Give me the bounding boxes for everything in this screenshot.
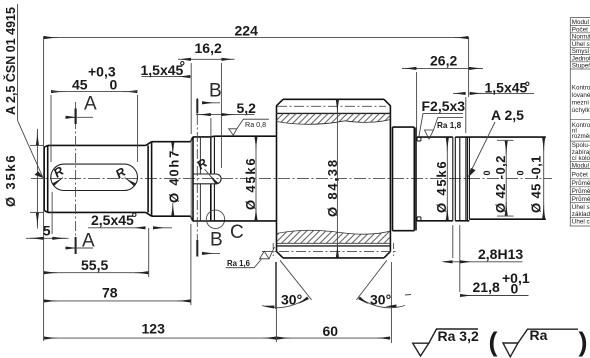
hub step section Ø52 bbox=[393, 127, 417, 231]
gear pitch line bottom (dash-dot) bbox=[262, 251, 396, 253]
dim 60 bbox=[276, 337, 390, 339]
svg-text:0: 0 bbox=[516, 170, 526, 175]
dim 45 +0,3 keyway length bbox=[51, 91, 65, 93]
svg-text:A: A bbox=[84, 94, 97, 115]
svg-text:): ) bbox=[579, 327, 588, 357]
svg-text:Jednot: Jednot bbox=[572, 55, 590, 62]
neck section with keyway runout bbox=[193, 136, 215, 221]
ext line left common bbox=[43, 36, 45, 341]
svg-text:Ra 3,2: Ra 3,2 bbox=[438, 328, 479, 344]
svg-text:Ø 45k6: Ø 45k6 bbox=[434, 160, 449, 213]
svg-text:mezní: mezní bbox=[572, 100, 589, 107]
step chamfer 2,5x45 between Ø35 and Ø40 bbox=[146, 142, 152, 217]
shaft section 3 Ø45k6 left bbox=[214, 136, 276, 221]
svg-text:Ø 42 -0,2: Ø 42 -0,2 bbox=[493, 155, 508, 213]
svg-text:30°: 30° bbox=[281, 292, 302, 308]
detail circle C bbox=[206, 210, 224, 228]
svg-text:°: ° bbox=[132, 210, 138, 226]
dim Ø45 right end bbox=[543, 141, 545, 215]
svg-text:Průmě: Průmě bbox=[572, 187, 590, 195]
dim 5 bbox=[26, 237, 69, 239]
svg-text:lované: lované bbox=[572, 92, 590, 99]
tooth chamfer 30 deg right bbox=[356, 260, 411, 307]
svg-text:55,5: 55,5 bbox=[81, 257, 108, 273]
svg-text:Ra 1,6: Ra 1,6 bbox=[227, 259, 251, 268]
svg-text:Ø 35k6: Ø 35k6 bbox=[3, 154, 18, 207]
leader F2,5x3 bbox=[419, 114, 463, 137]
gear data table right edge bbox=[570, 18, 590, 226]
svg-text:C: C bbox=[230, 222, 244, 243]
svg-text:rozměr: rozměr bbox=[572, 133, 590, 140]
svg-text:A 2,5: A 2,5 bbox=[491, 107, 524, 123]
svg-text:°: ° bbox=[180, 58, 186, 74]
svg-text:0: 0 bbox=[110, 77, 118, 93]
main centerline bbox=[31, 177, 552, 179]
gear broken-out section hatch top bbox=[277, 113, 391, 124]
gear root line top bbox=[277, 112, 391, 114]
svg-text:Počet z: Počet z bbox=[572, 26, 590, 33]
svg-text:Modul: Modul bbox=[572, 162, 589, 169]
dim Ø40h7 bbox=[172, 142, 174, 155]
dim 123 bbox=[44, 337, 277, 339]
svg-text:(: ( bbox=[489, 327, 498, 357]
svg-text:Ra: Ra bbox=[530, 327, 548, 343]
svg-text:26,2: 26,2 bbox=[430, 53, 457, 69]
retaining ring groove 2,8H13 bbox=[453, 137, 460, 221]
svg-text:Stupeň: Stupeň bbox=[572, 63, 590, 70]
svg-text:Ø 45k6: Ø 45k6 bbox=[243, 157, 258, 210]
svg-text:21,8: 21,8 bbox=[473, 279, 500, 295]
svg-text:Smysl: Smysl bbox=[572, 48, 589, 55]
svg-text:cí kolo: cí kolo bbox=[572, 155, 590, 162]
svg-text:Průmě: Průmě bbox=[572, 195, 590, 203]
section line B-B bbox=[197, 98, 220, 257]
keyway radius leaders R bbox=[53, 169, 217, 185]
svg-text:1,5x45: 1,5x45 bbox=[141, 62, 184, 78]
svg-text:F2,5x3: F2,5x3 bbox=[422, 98, 466, 114]
svg-text:2,5x45: 2,5x45 bbox=[91, 212, 134, 228]
tooth chamfer 30 deg left bbox=[262, 260, 312, 309]
dim 21,8 bbox=[460, 295, 529, 297]
svg-text:16,2: 16,2 bbox=[195, 40, 222, 56]
svg-text:Úhel sk: Úhel sk bbox=[572, 39, 590, 48]
dim 26,2 bbox=[402, 67, 483, 69]
dim 78 bbox=[44, 300, 191, 302]
step to neck section bbox=[191, 137, 193, 221]
gear pitch mark verticals bottom bbox=[272, 243, 274, 256]
shaft section Ø45k6 right bbox=[417, 137, 453, 221]
svg-text:B: B bbox=[209, 81, 222, 102]
svg-text:Počet z: Počet z bbox=[572, 172, 590, 179]
svg-text:2,8H13: 2,8H13 bbox=[478, 246, 523, 262]
gear broken-out section hatch bottom bbox=[277, 230, 391, 243]
chamfer callout 2,5x45 bbox=[88, 227, 146, 229]
dim Ø45k6 left bbox=[255, 141, 257, 216]
shaft section 1 Ø35k6 outline bbox=[44, 145, 146, 212]
svg-text:A: A bbox=[82, 231, 95, 252]
svg-text:Ra 1,8: Ra 1,8 bbox=[437, 121, 462, 130]
svg-text:A 2,5 ČSN 01 4915: A 2,5 ČSN 01 4915 bbox=[3, 7, 18, 115]
svg-text:78: 78 bbox=[102, 285, 118, 301]
svg-text:Normál: Normál bbox=[572, 34, 590, 41]
keyway 2 small slot with round end bbox=[193, 174, 221, 184]
svg-text:Modul: Modul bbox=[572, 19, 589, 26]
gear pitch line top (dash-dot) bbox=[277, 105, 386, 107]
dim 224 bbox=[44, 37, 469, 39]
general roughness note bottom right bbox=[413, 329, 578, 357]
end chamfer 1,5x45 verticals bbox=[455, 137, 469, 221]
chamfer callout 1,5x45 left bbox=[142, 76, 191, 78]
gear root line bottom bbox=[277, 245, 391, 247]
dim 2,8H13 bbox=[452, 225, 454, 258]
svg-text:1,5x45: 1,5x45 bbox=[485, 80, 528, 96]
dim 55,5 bbox=[44, 272, 149, 274]
roughness symbol Ra 1,8 bbox=[425, 118, 464, 140]
roughness symbol Ra 1,6 bbox=[226, 247, 275, 268]
svg-text:123: 123 bbox=[142, 321, 166, 337]
section line A-A bbox=[66, 102, 94, 254]
svg-text:0: 0 bbox=[482, 170, 492, 175]
dim Ø42 bbox=[497, 139, 514, 141]
keyway 1 (stadium slot) on Ø35 section bbox=[51, 164, 138, 190]
svg-text:60: 60 bbox=[323, 323, 339, 339]
svg-text:Ø 40h7: Ø 40h7 bbox=[167, 149, 182, 203]
dim Ø35k6 bbox=[30, 144, 44, 146]
svg-text:5,2: 5,2 bbox=[237, 100, 257, 116]
svg-text:úchylky: úchylky bbox=[572, 107, 590, 114]
svg-text:Ø 45 -0,1: Ø 45 -0,1 bbox=[529, 155, 544, 213]
svg-text:45: 45 bbox=[72, 77, 88, 93]
gear Ø84,38 outline bbox=[277, 99, 391, 258]
shaft end sections Ø42 / Ø45 bbox=[460, 137, 546, 221]
dim 16,2 bbox=[178, 58, 191, 60]
svg-text:Ra 0,8: Ra 0,8 bbox=[245, 120, 266, 129]
shaft section 2 Ø40h7 bbox=[152, 142, 191, 217]
center hole callout A 2,5 right bbox=[469, 122, 495, 176]
svg-text:°: ° bbox=[525, 79, 531, 95]
svg-text:Ø 84,38: Ø 84,38 bbox=[325, 158, 340, 217]
svg-text:základ: základ bbox=[572, 211, 590, 218]
svg-text:5: 5 bbox=[43, 223, 51, 239]
dim 5,2 bbox=[196, 114, 255, 116]
svg-text:B: B bbox=[210, 230, 223, 251]
svg-text:Úhel sk: Úhel sk bbox=[572, 202, 590, 211]
center hole callout A 2,5 CSN left bbox=[18, 4, 43, 177]
chamfer dim 1,5x45 right bbox=[453, 92, 466, 94]
svg-text:Průmě: Průmě bbox=[572, 179, 590, 187]
dim Ø84,38 bbox=[336, 104, 338, 253]
svg-text:0: 0 bbox=[511, 281, 519, 297]
svg-text:Kontro: Kontro bbox=[572, 85, 590, 92]
svg-text:30°: 30° bbox=[370, 292, 391, 308]
dim Ø45k6 right bbox=[446, 142, 448, 216]
roughness symbol Ra 0,8 bbox=[229, 119, 269, 135]
relief groove F2,5x3 at hub shoulder bbox=[417, 137, 421, 221]
svg-text:Úhel ce: Úhel ce bbox=[572, 216, 590, 225]
svg-text:224: 224 bbox=[235, 22, 259, 38]
